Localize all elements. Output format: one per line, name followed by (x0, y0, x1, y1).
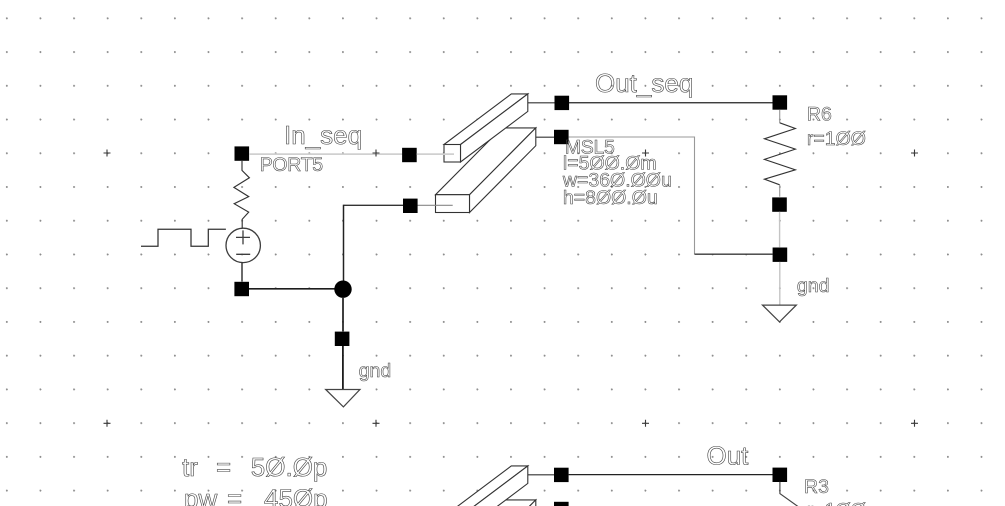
ground symbol left (326, 390, 360, 407)
svg-text:R6: R6 (807, 103, 832, 125)
wire source bottom lead (241, 263, 243, 282)
svg-text:PORT5: PORT5 (260, 154, 324, 176)
wire junction to port bottom (249, 288, 335, 290)
node substrate left (403, 199, 418, 213)
wire substrate node to corner (569, 137, 695, 254)
wire ground node to ground symbol (342, 346, 344, 389)
wire ground node to ground symbol (right) (779, 262, 781, 305)
svg-text:pw=45Øp: pw=45Øp (184, 484, 328, 506)
wire into substrate front face (417, 204, 453, 206)
wire In_seq into strip front face (417, 153, 454, 155)
resistor R6 zigzag (764, 123, 795, 185)
node substrate right (554, 130, 569, 144)
node on In_seq wire (402, 148, 417, 162)
ground node square (left) (335, 332, 350, 346)
svg-text:r=1ØØ: r=1ØØ (807, 128, 866, 150)
svg-text:h=8ØØ.Øu: h=8ØØ.Øu (563, 187, 658, 209)
square-wave glyph of source PORT5 (141, 229, 226, 246)
svg-text:R3: R3 (804, 476, 829, 498)
internal resistor of PORT5 (234, 161, 250, 228)
svg-text:In_seq: In_seq (284, 120, 362, 150)
svg-text:r=1ØØ: r=1ØØ (807, 500, 866, 506)
wire corner to R6 bottom node (695, 253, 773, 255)
microstrip MSL5 substrate bar (436, 128, 536, 213)
ground symbol right (763, 305, 797, 322)
svg-text:gnd: gnd (359, 360, 392, 382)
terminal node bottom of PORT5 (234, 282, 249, 296)
svg-text:tr=5Ø.Øp: tr=5Ø.Øp (182, 452, 327, 482)
wire strip right end to node (bottom circuit) (528, 474, 555, 476)
wire node to left corner (substrate feed) (344, 204, 404, 206)
node substrate right (bottom circuit, clipped) (554, 502, 569, 506)
node R3 top (773, 468, 788, 482)
resistor R3 stub and zigzag start (780, 482, 799, 506)
svg-text:gnd: gnd (797, 275, 830, 297)
wire Out (569, 474, 773, 476)
node strip right (555, 96, 570, 110)
wire corner down to junction (343, 205, 345, 281)
svg-text:Out: Out (707, 441, 750, 471)
wire substrate right end to node (536, 136, 554, 138)
node Out wire left (554, 468, 569, 482)
wire In_seq: port to node (249, 150, 403, 157)
microstrip (bottom) strip bar (444, 466, 528, 506)
resistor R6 bottom stub (779, 185, 781, 197)
ground node square (right) (773, 248, 788, 262)
wire junction to ground node (342, 298, 344, 332)
resistor R6 top stub (779, 110, 781, 123)
source PORT5 circle symbol (226, 228, 260, 262)
junction node (dot) (334, 281, 351, 298)
wire R6 bottom node to ground node (779, 212, 781, 247)
microstrip (bottom) substrate bar (436, 500, 536, 506)
wire Out_seq (569, 102, 773, 104)
node R6 top (773, 95, 788, 109)
node R6 bottom (772, 197, 787, 211)
microstrip MSL5 strip bar (444, 94, 528, 162)
wire strip right end to node (528, 102, 555, 104)
svg-text:Out_seq: Out_seq (595, 68, 693, 98)
terminal node top of PORT5 (235, 146, 250, 160)
